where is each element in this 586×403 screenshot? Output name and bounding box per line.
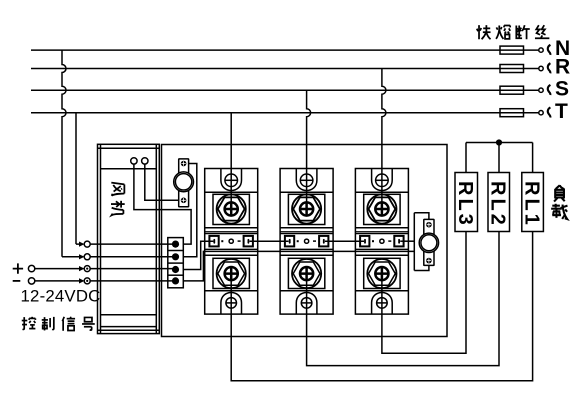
- U1 gate dot: [221, 240, 223, 242]
- main heatsink box: [162, 145, 448, 337]
- thermostat ST2 plate: [424, 219, 434, 265]
- ST1 body outer circle: [174, 172, 194, 192]
- fan box outer: [98, 144, 160, 333]
- U3 bottom tab: [372, 293, 393, 315]
- fan box bottom line: [98, 329, 160, 331]
- U2 top hex nut: [293, 197, 320, 220]
- ST2 top screw: [426, 222, 432, 228]
- U2 module body: [280, 169, 333, 315]
- U3 top clamp plate: [364, 194, 400, 224]
- U1 gate dash: [238, 240, 241, 242]
- wire N to control terminal 2 (with hops): [62, 50, 66, 257]
- U2 bottom tab: [296, 293, 317, 315]
- label 风机 (rotated): [111, 183, 125, 216]
- wire U1 bottom to RL1: [231, 232, 532, 381]
- U2 top tab screw: [300, 174, 313, 187]
- U2 top screw circle: [300, 202, 313, 215]
- plus sign: [13, 263, 23, 273]
- gate chain wire U1-U2: [250, 240, 289, 242]
- U1 gate square right: [244, 236, 253, 247]
- svg-text:RL2: RL2: [487, 181, 509, 228]
- bus line N: [31, 49, 539, 51]
- terminal circle N: [539, 48, 543, 52]
- connector arrow line2: [79, 254, 85, 259]
- U2 bottom tab screw: [301, 298, 312, 309]
- U3 top tab: [372, 169, 393, 191]
- U3 bottom hex nut: [369, 262, 396, 285]
- fan box inner top line: [98, 147, 160, 149]
- U3 gate circle: [380, 239, 384, 243]
- U1 strip bottom divider: [205, 248, 258, 250]
- wire ST1 top to TB1 dot2: [183, 164, 197, 257]
- squiggle N: [548, 45, 551, 55]
- U1 top clamp plate: [213, 194, 249, 224]
- U3 strip bottom divider: [355, 248, 408, 250]
- wire TB1 dot4 to right loop: [183, 251, 414, 281]
- terminal circle S: [539, 88, 543, 92]
- terminal circle R: [539, 66, 543, 70]
- U3 bottom shoulder line: [355, 290, 408, 292]
- U2 gate square left: [285, 236, 294, 247]
- ST1 body inner circle: [175, 174, 191, 190]
- svg-text:S: S: [555, 77, 569, 100]
- U2 bottom hex nut: [293, 262, 320, 285]
- U1 top hex nut: [218, 197, 245, 220]
- TB1 dot 2: [172, 253, 179, 260]
- U3 top shoulder line: [355, 191, 408, 193]
- RL common bar: [466, 142, 533, 144]
- bus line S: [31, 89, 539, 91]
- TB1 dot 4: [172, 277, 179, 284]
- connector circle line3: [84, 266, 90, 272]
- ST2 body outer circle: [419, 233, 438, 252]
- U3 bottom upper line: [355, 254, 408, 256]
- U2 top washer circle: [292, 194, 321, 223]
- RL3 top lead: [465, 143, 467, 173]
- U2 gate dot: [297, 240, 299, 242]
- control line 1 (to TB1 dot1): [76, 243, 176, 245]
- U2 strip top divider: [280, 232, 333, 234]
- U2 top shoulder line: [280, 191, 333, 193]
- connector circle line1: [84, 241, 90, 247]
- label 快熔断丝: [477, 25, 550, 39]
- U1 top washer circle: [217, 194, 246, 223]
- U3 gate square right: [394, 236, 403, 247]
- U1 bottom washer circle: [217, 259, 246, 288]
- svg-text:R: R: [555, 56, 570, 79]
- fan box inner bottom line: [101, 326, 157, 328]
- ST2 bottom screw: [426, 258, 432, 264]
- fan box partition under fan terminals: [101, 168, 157, 170]
- wire TB1 dot3 to module1 gate left: [183, 241, 213, 269]
- U2 bottom screw circle: [300, 267, 313, 280]
- svg-text:RL3: RL3: [454, 181, 476, 228]
- TB1 dot 3: [172, 266, 179, 273]
- TB1 divider 2: [168, 262, 184, 264]
- fan box inner right wall: [155, 144, 157, 333]
- U2 top clamp plate: [288, 194, 324, 224]
- U3 gate dot: [372, 240, 374, 242]
- fuse F4 (T): [500, 109, 524, 117]
- control line 3 (+ to TB1 dot3): [35, 268, 176, 270]
- U3 bottom washer circle: [367, 259, 396, 288]
- U2 top lower line: [280, 227, 333, 229]
- U3 strip top divider: [355, 232, 408, 234]
- svg-text:T: T: [555, 100, 568, 123]
- fuse F3 (S): [500, 86, 524, 94]
- load RL2: [488, 173, 510, 232]
- gate chain wire U3 to ST2 loop: [400, 240, 414, 242]
- U2 bottom washer circle: [292, 259, 321, 288]
- U3 top lower line: [355, 227, 408, 229]
- U3 gate dash: [388, 240, 391, 242]
- wire fan1 to TB1 dot1: [134, 164, 191, 244]
- connector arrow line4: [79, 278, 85, 283]
- connector arrow line3: [79, 266, 85, 271]
- RL1 top lead: [532, 143, 534, 173]
- U2 strip bottom divider: [280, 248, 333, 250]
- connector circle line4: [84, 278, 90, 284]
- squiggle R: [548, 63, 551, 73]
- U3 top screw circle: [375, 202, 388, 215]
- U1 bottom upper line: [205, 254, 258, 256]
- control line 4 (- to TB1 dot4): [35, 280, 176, 282]
- ST1 top screw: [181, 161, 187, 167]
- U2 gate dash: [313, 240, 316, 242]
- U1 top lower line: [205, 227, 258, 229]
- wire fan2 to thermostat ST1 bottom: [145, 164, 179, 200]
- junction node: [496, 139, 502, 145]
- TB1 divider 3: [168, 274, 184, 276]
- connector arrow line1: [79, 242, 85, 247]
- plus terminal circle: [28, 265, 34, 271]
- wire S to module U2 top (hop at T): [307, 90, 311, 209]
- U1 gate circle: [229, 239, 233, 243]
- squiggle S: [548, 85, 551, 95]
- U1 bottom shoulder line: [205, 290, 258, 292]
- label 负载: [551, 185, 567, 219]
- fuse F1 (N): [500, 46, 524, 54]
- U1 bottom hex nut: [218, 262, 245, 285]
- U2 bottom upper line: [280, 254, 333, 256]
- terminal block TB1: [168, 238, 184, 288]
- TB1 divider 1: [168, 250, 184, 252]
- U1 strip top divider: [205, 232, 258, 234]
- RL2 top lead: [498, 143, 500, 173]
- U2 gate circle: [305, 239, 309, 243]
- minus terminal circle: [28, 278, 34, 284]
- wire R to module U3 top (hops at S,T): [382, 69, 386, 210]
- U3 top tab screw: [376, 174, 389, 187]
- bus line T: [31, 112, 539, 114]
- ST2 body inner circle: [421, 235, 437, 251]
- U1 bottom screw circle: [225, 267, 238, 280]
- svg-text:12-24VDC: 12-24VDC: [21, 287, 101, 306]
- U2 bottom shoulder line: [280, 290, 333, 292]
- gate chain wire U2-U3: [325, 240, 364, 242]
- wire T to control terminal 1: [75, 113, 77, 244]
- U1 module body: [205, 169, 258, 315]
- U1 top tab screw: [225, 174, 238, 187]
- control line 2 (to TB1 dot2): [62, 256, 176, 258]
- U2 bottom clamp plate: [288, 258, 324, 288]
- U1 top shoulder line: [205, 191, 258, 193]
- U3 bottom tab screw: [377, 298, 388, 309]
- wire U3 bottom to RL3: [382, 232, 466, 354]
- fuse F2 (R): [500, 65, 524, 73]
- svg-text:RL1: RL1: [520, 181, 542, 228]
- fan box lower partition: [101, 314, 157, 316]
- wire U2 bottom to RL2: [307, 232, 499, 366]
- U3 bottom clamp plate: [364, 258, 400, 288]
- U3 gate square left: [360, 236, 369, 247]
- squiggle T: [548, 107, 551, 117]
- U1 gate square left: [209, 236, 218, 247]
- U1 bottom tab screw: [226, 298, 237, 309]
- thermostat ST1 plate: [179, 159, 189, 207]
- connector circle line2: [84, 254, 90, 260]
- terminal circle T: [539, 111, 543, 115]
- U1 bottom clamp plate: [213, 258, 249, 288]
- U3 top hex nut: [369, 197, 396, 220]
- U2 top tab: [296, 169, 317, 191]
- fan terminal circle 2: [142, 158, 148, 164]
- wire T to module U1 top: [230, 113, 232, 209]
- ST1 bottom screw: [181, 198, 187, 204]
- fan box inner left wall: [100, 144, 102, 333]
- load RL3: [455, 173, 478, 232]
- U3 bottom screw circle: [375, 267, 388, 280]
- fan terminal circle 1: [131, 158, 137, 164]
- label 控制信号: [22, 317, 95, 331]
- bus line R: [31, 68, 539, 70]
- U2 gate square right: [319, 236, 328, 247]
- TB1 dot 1: [172, 241, 179, 248]
- U1 top tab: [221, 169, 242, 191]
- load RL1: [522, 173, 544, 232]
- minus sign: [13, 280, 21, 282]
- U3 module body: [355, 169, 408, 315]
- ST2 loop wire: [414, 213, 429, 271]
- U1 bottom tab: [221, 293, 242, 315]
- U1 top screw circle: [225, 202, 238, 215]
- U3 top washer circle: [367, 194, 396, 223]
